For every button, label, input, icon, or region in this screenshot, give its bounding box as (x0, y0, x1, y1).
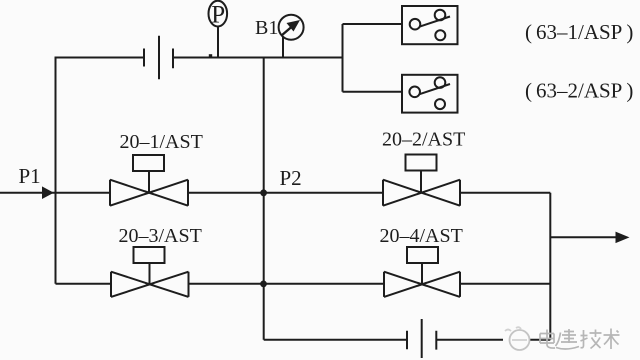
svg-text:20–4/AST: 20–4/AST (380, 225, 463, 247)
svg-text:(63–1/ASP): (63–1/ASP) (525, 20, 633, 44)
svg-text:P: P (211, 2, 225, 29)
svg-text:B1: B1 (255, 17, 278, 39)
svg-text:20–3/AST: 20–3/AST (119, 225, 202, 247)
svg-text:20–2/AST: 20–2/AST (382, 129, 465, 151)
svg-text:P1: P1 (19, 164, 41, 188)
svg-text:(63–2/ASP): (63–2/ASP) (525, 79, 633, 103)
svg-text:20–1/AST: 20–1/AST (120, 131, 203, 153)
svg-text:P2: P2 (280, 166, 302, 190)
